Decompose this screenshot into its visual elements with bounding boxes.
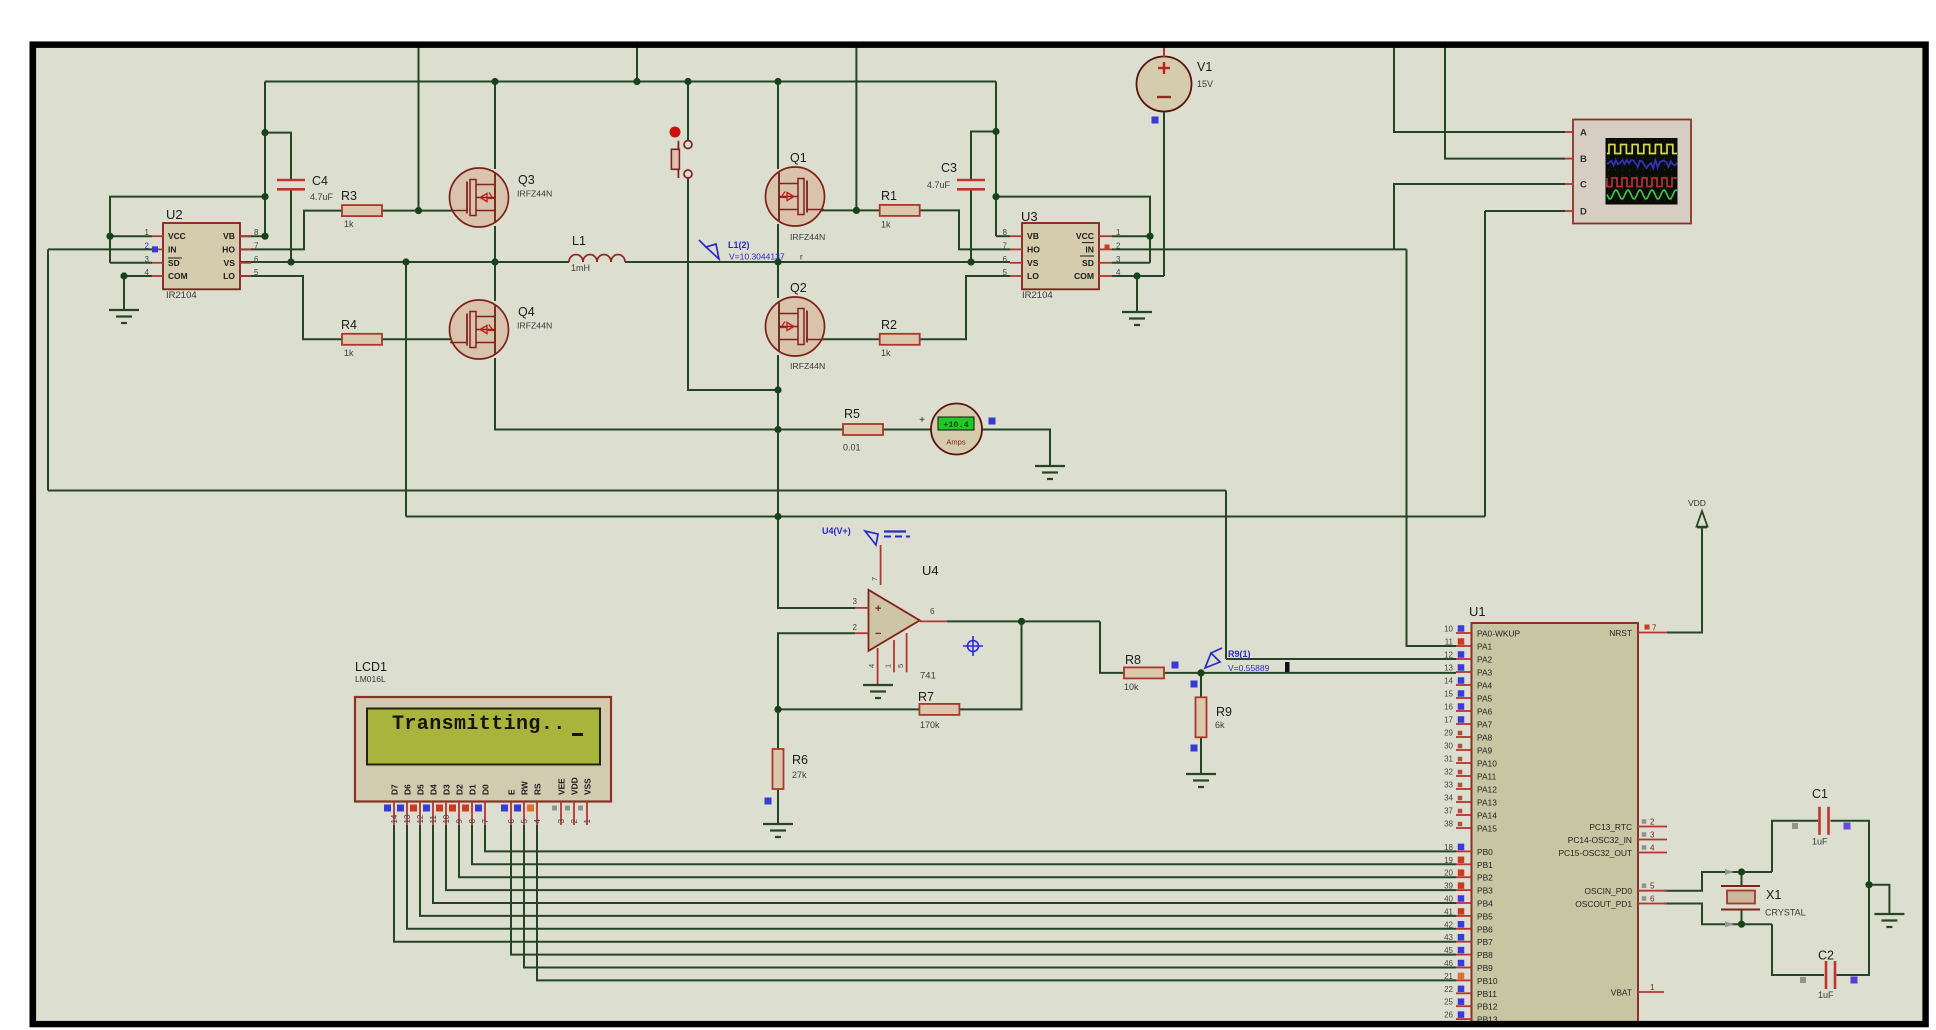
svg-text:1k: 1k — [344, 348, 354, 358]
svg-text:PB10: PB10 — [1477, 976, 1498, 986]
wire rail stub to top edge — [636, 45, 638, 82]
svg-text:Q4: Q4 — [518, 305, 535, 319]
svg-text:PB0: PB0 — [1477, 847, 1493, 857]
svg-text:D2: D2 — [455, 784, 465, 795]
wire button top — [687, 82, 689, 142]
U1 pin 21 PB10 — [1456, 979, 1472, 981]
svg-text:13: 13 — [1444, 664, 1453, 673]
LCD pin D3 — [445, 802, 447, 826]
IC U2 IR2104 — [163, 223, 240, 289]
svg-text:2: 2 — [570, 819, 579, 824]
svg-text:C4: C4 — [312, 174, 328, 188]
wire crystal top stub — [1741, 872, 1743, 886]
svg-text:3: 3 — [853, 597, 858, 606]
svg-text:4: 4 — [867, 664, 876, 668]
svg-text:PA9: PA9 — [1477, 746, 1493, 756]
capacitor C3 — [957, 179, 985, 182]
svg-text:2: 2 — [1116, 241, 1121, 250]
svg-text:X1: X1 — [1766, 888, 1781, 902]
wire LCD D1 to U1 PB1 — [472, 825, 1456, 864]
svg-text:IRFZ44N: IRFZ44N — [790, 361, 825, 371]
U1 pin 32 PA11 — [1456, 775, 1472, 777]
U1 pin 41 PB5 — [1456, 915, 1472, 917]
svg-text:PA5: PA5 — [1477, 694, 1493, 704]
svg-text:2: 2 — [853, 623, 858, 632]
svg-text:RW: RW — [520, 781, 530, 795]
wire U3 VB column — [995, 82, 997, 237]
svg-text:PB9: PB9 — [1477, 963, 1493, 973]
LCD pin D6 — [406, 802, 408, 826]
svg-text:R4: R4 — [341, 318, 357, 332]
LCD pin D5 — [419, 802, 421, 826]
svg-text:PB2: PB2 — [1477, 873, 1493, 883]
U1 pin 15 PA5 — [1456, 697, 1472, 699]
svg-text:SD: SD — [168, 258, 180, 268]
svg-text:OSCOUT_PD1: OSCOUT_PD1 — [1575, 899, 1632, 909]
U1 pin PC14-OSC32_IN — [1638, 839, 1667, 841]
svg-text:PC13_RTC: PC13_RTC — [1589, 822, 1632, 832]
wire riser to PA2 — [1225, 491, 1227, 660]
svg-text:PA0-WKUP: PA0-WKUP — [1477, 629, 1521, 639]
svg-text:0.01: 0.01 — [843, 443, 861, 453]
svg-text:IRFZ44N: IRFZ44N — [517, 321, 552, 331]
oscilloscope — [1573, 120, 1691, 224]
wire Q2 gate to R2 — [811, 338, 880, 340]
svg-text:PA2: PA2 — [1477, 655, 1493, 665]
wire VS phase rail left — [240, 261, 569, 263]
wire long horizontal U2-IN net — [48, 490, 1226, 492]
svg-text:30: 30 — [1444, 742, 1453, 751]
wire Q1 gate node to top edge — [855, 45, 857, 210]
wire R2 to U3 LO — [919, 276, 1010, 339]
wire ammeter to ground — [981, 430, 1050, 467]
svg-text:PA14: PA14 — [1477, 811, 1497, 821]
svg-text:VB: VB — [223, 231, 235, 241]
U1 pin 19 PB1 — [1456, 863, 1472, 865]
wire U2 COM ground stem — [123, 276, 125, 310]
wire button bottom — [688, 178, 778, 391]
svg-text:IR2104: IR2104 — [1022, 290, 1053, 301]
svg-text:1uF: 1uF — [1818, 990, 1834, 1000]
svg-text:R5: R5 — [844, 407, 860, 421]
svg-text:19: 19 — [1444, 856, 1453, 865]
ground under U2 COM — [109, 309, 139, 311]
resistor R3 — [342, 205, 382, 216]
U1 pin 37 PA14 — [1456, 814, 1472, 816]
svg-text:43: 43 — [1444, 933, 1453, 942]
wire R6 top — [777, 709, 779, 750]
svg-text:10k: 10k — [1124, 682, 1139, 692]
svg-text:4.7uF: 4.7uF — [927, 180, 951, 190]
wire output drop to R8 — [1100, 621, 1124, 673]
svg-text:10: 10 — [442, 814, 451, 823]
svg-text:1mH: 1mH — [571, 263, 590, 273]
U1 pin 26 PB13 — [1456, 1018, 1472, 1020]
wire scope C drop — [1394, 184, 1565, 249]
svg-text:5: 5 — [1003, 268, 1008, 277]
svg-text:8: 8 — [254, 228, 259, 237]
svg-text:16: 16 — [1444, 703, 1453, 712]
U1 pin PC13_RTC — [1638, 826, 1667, 828]
svg-text:31: 31 — [1444, 755, 1453, 764]
svg-text:IR2104: IR2104 — [166, 290, 197, 301]
wire OSCIN to crystal — [1664, 872, 1772, 891]
scope trace C red — [1607, 178, 1677, 187]
IC U3 IR2104 — [1022, 223, 1099, 289]
svg-text:5: 5 — [1650, 882, 1655, 891]
U1 pin 29 PA8 — [1456, 736, 1472, 738]
svg-text:42: 42 — [1444, 920, 1453, 929]
LCD pin D7 — [393, 802, 395, 826]
svg-text:27k: 27k — [792, 770, 807, 780]
wire R4 to Q4 gate — [381, 338, 457, 340]
wire U3 VCC pin — [1112, 235, 1150, 237]
svg-text:7: 7 — [870, 577, 879, 581]
svg-text:D1: D1 — [468, 784, 478, 795]
svg-text:37: 37 — [1444, 807, 1453, 816]
svg-text:C: C — [1580, 180, 1587, 191]
wire NRST to VDD — [1667, 527, 1702, 633]
svg-text:R7: R7 — [918, 690, 934, 704]
svg-text:1: 1 — [1116, 228, 1121, 237]
svg-text:3: 3 — [557, 819, 566, 824]
svg-text:A: A — [1580, 128, 1587, 139]
U1 pin 12 PA2 — [1456, 658, 1472, 660]
wire U2 HO to R3 — [240, 211, 343, 250]
LCD pin VDD — [573, 802, 575, 826]
U1 pin 45 PB8 — [1456, 954, 1472, 956]
svg-text:6: 6 — [930, 607, 935, 616]
ground under R9 — [1186, 773, 1216, 775]
wire U3 VB pin — [996, 235, 1010, 237]
svg-text:2: 2 — [145, 241, 150, 250]
svg-text:32: 32 — [1444, 768, 1453, 777]
wire R6 bottom to ground — [777, 788, 779, 824]
U1 pin 20 PB2 — [1456, 876, 1472, 878]
LCD pin D4 — [432, 802, 434, 826]
svg-text:20: 20 — [1444, 869, 1453, 878]
wire U2 VCC pin1 — [110, 235, 152, 237]
wire U3 SD pin — [1112, 262, 1150, 264]
svg-text:39: 39 — [1444, 882, 1453, 891]
svg-text:Transmitting..: Transmitting.. — [392, 713, 566, 736]
wire scope A — [1394, 45, 1565, 132]
wire divider node to PA3 — [1201, 672, 1456, 674]
svg-text:V1: V1 — [1197, 60, 1212, 74]
U1 pin 18 PB0 — [1456, 850, 1472, 852]
svg-text:V=10.3044137: V=10.3044137 — [729, 252, 785, 262]
LCD pin D0 — [484, 802, 486, 826]
svg-text:D4: D4 — [429, 784, 439, 795]
wire C1 right to ground rail — [1831, 821, 1870, 975]
svg-text:VDD: VDD — [1688, 498, 1706, 508]
svg-text:29: 29 — [1444, 729, 1453, 738]
wire ground branch — [1869, 885, 1889, 914]
wire U3 COM ground stem — [1136, 276, 1138, 312]
svg-text:38: 38 — [1444, 820, 1453, 829]
capacitor C1 — [1818, 807, 1821, 835]
svg-text:VS: VS — [224, 258, 236, 268]
svg-text:33: 33 — [1444, 781, 1453, 790]
svg-text:B: B — [1580, 154, 1587, 165]
origin marker — [963, 636, 983, 656]
svg-text:D7: D7 — [390, 784, 400, 795]
svg-text:170k: 170k — [920, 720, 940, 730]
svg-text:D3: D3 — [442, 784, 452, 795]
svg-text:D0: D0 — [481, 784, 491, 795]
svg-text:7: 7 — [481, 819, 490, 824]
transistor Q1 — [766, 167, 825, 226]
push button — [670, 127, 681, 138]
wire U2 VCC riser — [110, 197, 265, 263]
resistor R8 — [1124, 667, 1164, 678]
U1 pin 11 PA1 — [1456, 645, 1472, 647]
U1 pin OSCIN_PD0 — [1638, 890, 1667, 892]
svg-text:U4(V+): U4(V+) — [822, 526, 851, 536]
U1 pin 25 PB12 — [1456, 1005, 1472, 1007]
svg-text:R3: R3 — [341, 189, 357, 203]
svg-text:PB7: PB7 — [1477, 937, 1493, 947]
svg-text:3: 3 — [145, 255, 150, 264]
svg-text:2: 2 — [1650, 818, 1655, 827]
svg-text:15V: 15V — [1197, 79, 1213, 89]
svg-text:4: 4 — [1650, 844, 1655, 853]
svg-text:6k: 6k — [1215, 720, 1225, 730]
wire LCD D7 to U1 PB7 — [394, 825, 1456, 942]
wire LCD D0 to U1 PB0 — [485, 825, 1456, 851]
svg-text:PA13: PA13 — [1477, 798, 1497, 808]
transistor Q3 — [450, 168, 509, 227]
svg-text:Q1: Q1 — [790, 151, 807, 165]
wire U3 VCC riser — [996, 197, 1150, 263]
wire LCD RS to U1 PB10 — [537, 825, 1456, 980]
svg-text:PA4: PA4 — [1477, 681, 1493, 691]
wire Q4 drain — [494, 262, 496, 301]
wire U3 COM pin — [1112, 275, 1164, 277]
wire U2 IN pin2 to left column — [48, 248, 152, 250]
resistor R4 — [342, 334, 382, 345]
wire VS phase rail right of L1 — [625, 261, 1010, 263]
svg-text:5: 5 — [254, 268, 259, 277]
inductor L1 — [569, 255, 583, 263]
wire LCD D4 to U1 PB4 — [433, 825, 1456, 903]
svg-text:+10.4: +10.4 — [943, 420, 969, 430]
U1 pin 34 PA13 — [1456, 801, 1472, 803]
wire scope B — [1445, 45, 1565, 159]
scope trace A yellow — [1607, 145, 1677, 154]
svg-text:5: 5 — [520, 819, 529, 824]
wire R9 top — [1200, 673, 1202, 698]
svg-text:RS: RS — [533, 783, 543, 795]
resistor R2 — [880, 334, 920, 345]
svg-text:PB4: PB4 — [1477, 899, 1493, 909]
wire Q3 gate node to top edge — [418, 45, 420, 211]
svg-text:VBAT: VBAT — [1611, 988, 1632, 998]
wire feedback R7 right — [959, 621, 1022, 709]
wire long horizontal VS net — [406, 516, 1485, 518]
svg-text:5: 5 — [896, 664, 905, 668]
wire riser to scope D — [1484, 211, 1486, 517]
svg-text:1: 1 — [145, 228, 150, 237]
U1 pin NRST — [1638, 632, 1667, 634]
U1 pin 10 PA0-WKUP — [1456, 632, 1472, 634]
wire U2 SD pin3 — [110, 262, 152, 264]
svg-text:11: 11 — [429, 815, 438, 824]
LCD pin RW — [523, 802, 525, 826]
svg-text:40: 40 — [1444, 895, 1453, 904]
capacitor C4 — [277, 179, 305, 182]
U1 pin 16 PA6 — [1456, 710, 1472, 712]
wire crystal top to C1 — [1772, 821, 1818, 872]
svg-text:C2: C2 — [1818, 949, 1834, 963]
U1 pin 31 PA10 — [1456, 762, 1472, 764]
svg-text:PA15: PA15 — [1477, 824, 1497, 834]
svg-text:VB: VB — [1027, 231, 1039, 241]
probe R9(1) — [1205, 653, 1220, 668]
svg-text:741: 741 — [920, 671, 936, 682]
wire C3 top link — [971, 132, 996, 181]
wire scope D stub — [1485, 210, 1565, 212]
U1 pin OSCOUT_PD1 — [1638, 903, 1667, 905]
U1 pin 22 PB11 — [1456, 992, 1472, 994]
op-amp U4 741 — [869, 590, 920, 651]
wire crystal bottom to C2 — [1772, 924, 1824, 975]
svg-text:4: 4 — [145, 268, 150, 277]
junction dots — [633, 78, 640, 85]
svg-text:8: 8 — [468, 819, 477, 824]
svg-text:IRFZ44N: IRFZ44N — [517, 189, 552, 199]
svg-text:IN: IN — [1085, 244, 1094, 254]
LCD pin RS — [536, 802, 538, 826]
svg-text:PA7: PA7 — [1477, 720, 1493, 730]
svg-text:14: 14 — [1444, 677, 1453, 686]
resistor R6 — [773, 749, 784, 789]
ground under ammeter — [1035, 465, 1065, 467]
wire LCD D2 to U1 PB2 — [459, 825, 1456, 877]
wire R8 to divider node — [1164, 672, 1201, 674]
wire U3 IN long — [1112, 248, 1407, 250]
svg-text:R6: R6 — [792, 753, 808, 767]
wire Q2 source — [777, 355, 779, 390]
svg-text:R8: R8 — [1125, 653, 1141, 667]
U1 pin 39 PB3 — [1456, 889, 1472, 891]
wire Q1 source to phase — [777, 224, 779, 262]
U1 pin 13 PA3 — [1456, 671, 1472, 673]
svg-text:10: 10 — [1444, 625, 1453, 634]
scope trace B blue noise — [1607, 160, 1677, 168]
svg-text:L1: L1 — [572, 234, 586, 248]
svg-text:COM: COM — [1074, 271, 1094, 281]
U1 pin 30 PA9 — [1456, 749, 1472, 751]
svg-text:PA10: PA10 — [1477, 759, 1497, 769]
svg-text:U4: U4 — [922, 563, 939, 578]
svg-text:PB8: PB8 — [1477, 950, 1493, 960]
svg-text:D: D — [1580, 207, 1587, 218]
svg-text:PA3: PA3 — [1477, 668, 1493, 678]
wire crystal bottom stub — [1741, 910, 1743, 925]
svg-text:4: 4 — [533, 819, 542, 824]
svg-text:26: 26 — [1444, 1011, 1453, 1020]
grey entry arrows — [1725, 869, 1734, 875]
svg-text:6: 6 — [1003, 255, 1008, 264]
svg-text:E: E — [507, 789, 517, 795]
LCD pin D1 — [471, 802, 473, 826]
svg-text:9: 9 — [455, 819, 464, 824]
wire Q1 gate to R1 — [811, 209, 880, 211]
wire Q1 drain — [777, 82, 779, 170]
U1 pin 42 PB6 — [1456, 928, 1472, 930]
svg-text:1: 1 — [583, 819, 592, 824]
wire LCD D3 to U1 PB3 — [446, 825, 1456, 890]
svg-text:45: 45 — [1444, 946, 1453, 955]
resistor R5 shunt — [843, 424, 883, 435]
svg-text:R1: R1 — [881, 189, 897, 203]
U1 pin 40 PB4 — [1456, 902, 1472, 904]
LCD pin E — [510, 802, 512, 826]
svg-text:1k: 1k — [881, 348, 891, 358]
U1 pin 14 PA4 — [1456, 684, 1472, 686]
wire Q2 drain — [777, 262, 779, 298]
LCD pin D2 — [458, 802, 460, 826]
svg-text:PA11: PA11 — [1477, 772, 1497, 782]
wire R5 to ammeter — [883, 429, 932, 431]
wire R1 to U3 HO — [919, 210, 1010, 249]
svg-text:U2: U2 — [166, 207, 183, 222]
svg-text:r: r — [800, 253, 803, 262]
wire shunt rail to R5 — [778, 429, 843, 431]
svg-text:PB5: PB5 — [1477, 911, 1493, 921]
svg-text:LO: LO — [1027, 271, 1039, 281]
svg-text:VEE: VEE — [557, 778, 567, 795]
ground under U3 COM — [1122, 311, 1152, 313]
svg-text:U3: U3 — [1021, 209, 1038, 224]
svg-text:7: 7 — [254, 241, 259, 250]
svg-text:7: 7 — [1003, 241, 1008, 250]
svg-text:Q2: Q2 — [790, 281, 807, 295]
svg-text:PA1: PA1 — [1477, 642, 1493, 652]
svg-text:PA12: PA12 — [1477, 785, 1497, 795]
svg-text:18: 18 — [1444, 843, 1453, 852]
svg-text:OSCIN_PD0: OSCIN_PD0 — [1585, 886, 1633, 896]
svg-text:PB1: PB1 — [1477, 860, 1493, 870]
svg-text:PA6: PA6 — [1477, 707, 1493, 717]
ground under R6 — [763, 823, 793, 825]
wire LCD RW to U1 PB9 — [524, 825, 1456, 968]
scope trace D green sine — [1607, 190, 1677, 199]
ground under op-amp — [863, 684, 893, 686]
svg-text:1: 1 — [1650, 983, 1655, 992]
svg-text:VSS: VSS — [583, 778, 593, 795]
wire OSCOUT to crystal — [1664, 904, 1772, 925]
svg-text:VS: VS — [1027, 258, 1039, 268]
svg-text:LM016L: LM016L — [355, 674, 386, 684]
svg-text:NRST: NRST — [1609, 628, 1632, 638]
ammeter — [931, 404, 982, 455]
U1 pin 38 PA15 — [1456, 827, 1472, 829]
transistor Q4 — [450, 300, 509, 359]
wire VS tap down — [405, 262, 407, 517]
IC U1 STM32 MCU — [1472, 623, 1639, 1030]
svg-text:R9(1): R9(1) — [1228, 649, 1251, 659]
svg-text:4.7uF: 4.7uF — [310, 192, 334, 202]
svg-text:3: 3 — [1650, 831, 1655, 840]
svg-text:LO: LO — [223, 271, 235, 281]
U1 pin PC15-OSC32_OUT — [1638, 852, 1667, 854]
svg-text:41: 41 — [1444, 907, 1453, 916]
LCD pin VSS — [586, 802, 588, 826]
svg-text:14: 14 — [390, 814, 399, 823]
resistor R1 — [880, 205, 920, 216]
